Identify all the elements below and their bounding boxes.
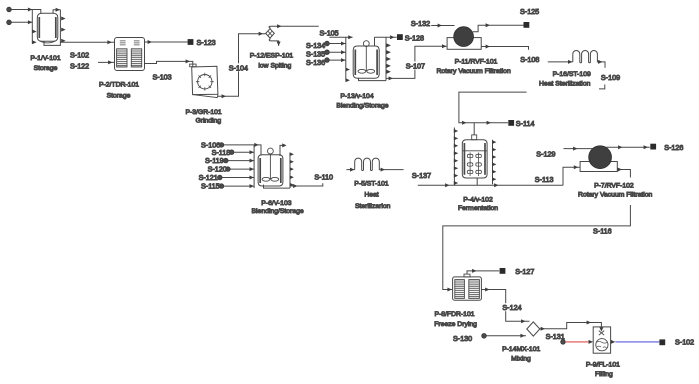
- wire red inlet stream: [565, 341, 589, 343]
- wire S-109 hook below label: [599, 85, 605, 89]
- fermenter P-4/V-102 body: [462, 140, 487, 178]
- svg-text:S-103: S-103: [153, 72, 172, 81]
- wire stream S-136: [329, 59, 345, 61]
- node S-115 feed dot: [219, 184, 224, 189]
- svg-text:Heat: Heat: [364, 192, 378, 199]
- wire V-102 right manifold pipe: [492, 140, 494, 185]
- wire feed2 into V-101 left pipe: [11, 21, 32, 23]
- wire stream S-104 grinder to ESP: [218, 34, 266, 97]
- svg-text:S-105: S-105: [320, 28, 339, 37]
- svg-text:Storage: Storage: [107, 92, 131, 99]
- label S-104: [228, 63, 248, 71]
- svg-text:S-114: S-114: [516, 119, 535, 128]
- node S-134 feed dot: [325, 41, 330, 46]
- filler flask icon: [599, 331, 604, 336]
- vessel P-6/V-103 body: [258, 155, 283, 186]
- svg-text:Blending/Storage: Blending/Storage: [252, 208, 304, 215]
- svg-text:P-8/FDR-101: P-8/FDR-101: [434, 311, 474, 318]
- wire stream S-109 out of ST-109: [599, 62, 605, 68]
- svg-text:Storage: Storage: [34, 65, 58, 72]
- svg-text:S-104: S-104: [229, 63, 248, 72]
- wire V-101 right pipe and bottom loop: [44, 10, 60, 46]
- node S-135 feed dot: [325, 50, 330, 55]
- svg-text:Mixing: Mixing: [511, 355, 531, 362]
- svg-text:P-16/ST-109: P-16/ST-109: [553, 71, 591, 78]
- node S-106 feed dot: [219, 143, 224, 148]
- wire stream S-130 into mixer: [486, 335, 526, 337]
- wire blue outlet stream S-102: [611, 340, 615, 344]
- svg-text:S-127: S-127: [515, 267, 534, 276]
- dryer P-2/TDR-101 body: [115, 38, 145, 71]
- label S-124: [502, 303, 520, 311]
- svg-text:Rotary Vacuum Filtration: Rotary Vacuum Filtration: [578, 191, 653, 198]
- wire stream S-120: [230, 168, 254, 170]
- svg-text:S-107: S-107: [406, 61, 425, 70]
- svg-text:S-130: S-130: [453, 334, 472, 343]
- fermenter V-102 top nozzle: [472, 135, 477, 140]
- svg-text:S-136: S-136: [306, 58, 325, 67]
- node S-125 sink square: [524, 22, 530, 28]
- wire stream S-103 TDR to grinder: [145, 61, 193, 66]
- wire V-104 right manifold pipe: [385, 37, 387, 80]
- agitator V-104: [363, 41, 369, 47]
- wire stream S-127: [467, 271, 499, 274]
- wire stream S-108 out of trough: [481, 47, 528, 50]
- wire stream S-135: [329, 51, 345, 53]
- fermenter V-102 internal coils: [467, 153, 481, 177]
- svg-text:S-128: S-128: [405, 33, 424, 42]
- node S-136 feed dot: [325, 58, 330, 63]
- filler internal feed arrow: [600, 327, 602, 328]
- wire stream S-134: [329, 43, 345, 45]
- wire stream into ST-109: [548, 61, 573, 63]
- vessel P-1/V-101 body: [37, 13, 58, 41]
- svg-text:P-7/RVF-102: P-7/RVF-102: [594, 182, 634, 189]
- svg-text:P-1/V-101: P-1/V-101: [30, 55, 60, 62]
- wire V-103 left manifold pipe: [253, 145, 255, 188]
- svg-text:P-12/ESP-101: P-12/ESP-101: [250, 53, 294, 60]
- svg-text:P-9/FL-101: P-9/FL-101: [586, 361, 620, 368]
- svg-text:S-108: S-108: [520, 55, 539, 64]
- wire stream S-102 V-101 to TDR-101: [60, 41, 114, 43]
- svg-text:P-3/GR-101: P-3/GR-101: [185, 109, 221, 116]
- wire stream S-116 RVF-102 to FDR-101: [443, 170, 631, 290]
- svg-text:Heat Sterilization: Heat Sterilization: [539, 81, 591, 88]
- sterilizer P-5/ST-101 coil: [355, 158, 381, 170]
- wire V-101 right top nozzle: [53, 10, 60, 14]
- svg-text:S-115: S-115: [201, 182, 220, 191]
- wire stream S-121: [222, 177, 254, 179]
- filter P-11/RVF-101 drum: [454, 27, 474, 47]
- wire V-104 top right nozzle to S-128: [375, 37, 397, 46]
- svg-text:S-121: S-121: [199, 173, 218, 182]
- wire stream S-106 into V-103 top: [224, 145, 261, 155]
- wire stream S-105 part2 into V-104: [329, 36, 352, 38]
- svg-text:Rotary Vacuum Filtration: Rotary Vacuum Filtration: [436, 68, 511, 75]
- svg-text:P-13/v-104: P-13/v-104: [340, 93, 373, 100]
- svg-text:Filling: Filling: [595, 371, 613, 378]
- node S-119 feed dot: [223, 158, 228, 163]
- node S-128 sink square: [397, 34, 403, 40]
- wire V-103 right manifold pipe: [289, 154, 291, 189]
- svg-text:Blending/Storage: Blending/Storage: [336, 102, 388, 109]
- svg-text:P-11/RVF-101: P-11/RVF-101: [455, 59, 498, 66]
- wire V-104 bottom loop: [359, 78, 387, 81]
- svg-text:P-14MX-101: P-14MX-101: [502, 346, 540, 353]
- wire stream S-131 mixer to filler top: [540, 323, 602, 329]
- wire stream S-124 FDR to mixer: [481, 290, 529, 322]
- wire ESP bottom vent branch: [269, 39, 278, 46]
- svg-text:S-129: S-129: [536, 149, 555, 158]
- wire V-102 bottom outlet: [476, 178, 478, 185]
- svg-text:Freeze Drying: Freeze Drying: [434, 321, 477, 328]
- mixer P-14/MX-101 diamond: [527, 322, 540, 336]
- wire stream out of ST-101: [380, 169, 403, 171]
- svg-text:Fermentation: Fermentation: [458, 205, 498, 212]
- wire stream S-115: [224, 185, 254, 187]
- wire stream S-122 into TDR-101: [98, 61, 115, 63]
- wire stream S-137 / S-113 bottom run: [418, 184, 563, 186]
- svg-text:S-102: S-102: [70, 50, 89, 59]
- wire stream S-107 V-104 to RVF-101: [386, 46, 447, 78]
- svg-text:S-132: S-132: [411, 19, 430, 28]
- node S-102 sink square: [659, 339, 665, 345]
- wire stream S-123: [145, 41, 188, 43]
- dryer P-8/FDR-101 body: [453, 277, 482, 300]
- svg-text:S-109: S-109: [601, 73, 620, 82]
- svg-text:P-2/TDR-101: P-2/TDR-101: [99, 81, 139, 88]
- wire V-102 left manifold pipe: [453, 128, 455, 186]
- node S-123 sink square: [188, 39, 194, 45]
- node feed dot 2: [7, 20, 12, 25]
- node S-120 feed dot: [226, 167, 231, 172]
- node S-130 feed dot: [482, 333, 487, 338]
- wire stream S-125: [473, 25, 524, 32]
- svg-text:S-102: S-102: [675, 338, 694, 347]
- wire stream S-132 into RVF-101 drum: [431, 25, 454, 27]
- svg-text:S-110: S-110: [314, 173, 333, 182]
- svg-text:S-122: S-122: [70, 61, 89, 70]
- vessel P-13/V-104 body: [353, 46, 379, 78]
- svg-text:S-116: S-116: [593, 227, 612, 236]
- filter P-11/RVF-101 trough: [447, 38, 481, 50]
- wire stream S-113 riser into RVF-102: [563, 167, 580, 185]
- svg-text:P-5/ST-101: P-5/ST-101: [354, 180, 389, 187]
- agitator V-103: [268, 148, 274, 154]
- splitter P-12/ESP-101 diamond: [266, 29, 275, 38]
- wire stream S-109 continuation to V-102 top: [459, 92, 527, 123]
- node S-121 feed dot: [217, 175, 222, 180]
- label P-7/RVF-102 Rotary Vacuum Filtration: [592, 178, 634, 206]
- node S-118 feed dot: [229, 150, 234, 155]
- filter P-7/RVF-102 trough: [580, 162, 617, 172]
- wire V-102 top nozzle riser: [473, 123, 475, 135]
- wire stream S-129 into RVF-102 drum: [564, 148, 593, 150]
- label S-107: [405, 62, 425, 70]
- wire stream S-118: [234, 151, 254, 153]
- svg-text:S-124: S-124: [502, 303, 521, 312]
- wire V-103 top right vent: [280, 145, 285, 156]
- wire feed1 into V-101 top nozzle: [11, 10, 40, 14]
- svg-text:Grinding: Grinding: [195, 117, 221, 124]
- svg-text:Sterilizarion: Sterilizarion: [355, 203, 391, 210]
- svg-text:S-126: S-126: [664, 143, 683, 152]
- fermenter V-102 liquid line: [462, 150, 487, 152]
- node S-101 feed dot 1: [7, 7, 12, 12]
- wire stream into ST-101: [346, 169, 354, 171]
- filter P-7/RVF-102 drum: [589, 146, 612, 169]
- wire ESP top branch S-105 part1: [269, 26, 319, 28]
- grinder P-3/GR-101 body: [190, 64, 196, 67]
- svg-text:S-125: S-125: [520, 7, 539, 16]
- svg-text:low Spiting: low Spiting: [258, 62, 291, 69]
- wire stream S-119: [228, 160, 254, 162]
- wire V-104 left manifold pipe: [345, 37, 347, 80]
- svg-text:P-6/V-103: P-6/V-103: [261, 200, 291, 207]
- grinder mill circle: [198, 75, 212, 89]
- wire V-103 bottom loop: [264, 185, 291, 189]
- svg-text:S-137: S-137: [412, 171, 431, 180]
- wire V-101 left manifold pipe: [31, 10, 33, 44]
- node red feed dot: [561, 340, 566, 345]
- svg-text:S-123: S-123: [197, 38, 216, 47]
- node S-126 sink square: [650, 144, 656, 150]
- wire stream S-110 out of V-103: [290, 183, 323, 186]
- sterilizer P-16/ST-109 coil: [573, 51, 599, 63]
- svg-text:P-4/v-102: P-4/v-102: [463, 196, 493, 203]
- svg-text:S-113: S-113: [535, 175, 554, 184]
- filler P-9/FL-101 body: [593, 327, 610, 353]
- wire stream S-126: [606, 146, 650, 148]
- node S-114 sink square: [508, 120, 514, 126]
- node S-127 sink square: [500, 268, 506, 274]
